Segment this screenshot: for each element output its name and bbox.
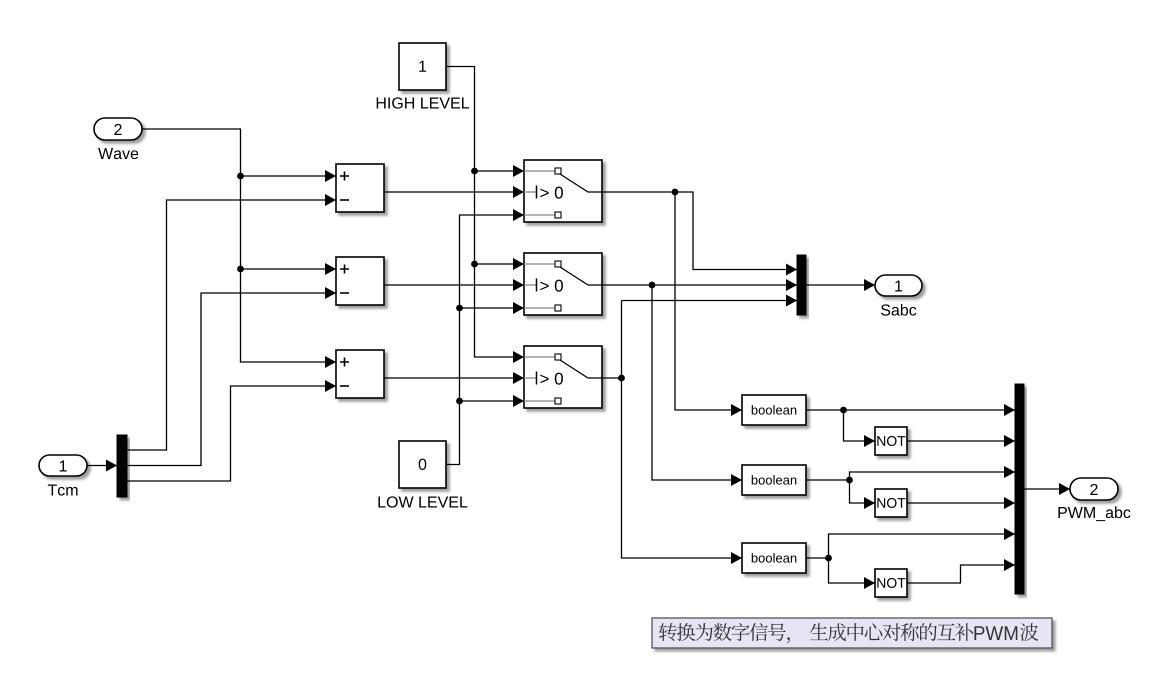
wire boolean2 out to big mux in3 bbox=[806, 466, 1015, 480]
wire switch2 out branch to boolean2 bbox=[649, 282, 742, 486]
demux (Tcm split) bbox=[117, 435, 127, 497]
wire mux to outport PWM_abc bbox=[1024, 483, 1070, 495]
annotation box (Chinese note) bbox=[652, 618, 1052, 648]
wire Tcm to demux bbox=[87, 460, 117, 472]
outport 2 PWM_abc bbox=[1070, 478, 1118, 500]
logical operator NOT2 bbox=[875, 489, 907, 517]
inport 1 Tcm bbox=[39, 455, 87, 476]
wire switch3 out branch to boolean3 bbox=[622, 301, 743, 565]
switch block switch3 (> 0) bbox=[524, 346, 602, 408]
wire LOW LEVEL to switch in3 ports bbox=[446, 209, 524, 465]
sum block sum1 (+ -) bbox=[336, 164, 384, 212]
data type conversion boolean1 bbox=[742, 395, 806, 425]
wire boolean1 out to big mux in1 bbox=[806, 404, 1015, 416]
wire switch2 out to mux Sabc in2 bbox=[602, 279, 797, 291]
wire switch1 out branch to boolean1 bbox=[672, 189, 742, 416]
mux for Sabc bbox=[797, 255, 806, 315]
label Wave bbox=[98, 148, 138, 159]
label Sabc bbox=[881, 304, 916, 316]
wire sum1 out to switch1 control bbox=[384, 186, 524, 198]
logical operator NOT1 bbox=[875, 427, 907, 455]
wire boolean3 branch to NOT3 bbox=[825, 555, 875, 589]
switch block switch2 (> 0) bbox=[524, 253, 602, 315]
wire mux to outport Sabc bbox=[806, 279, 875, 291]
wire sum2 out to switch2 control bbox=[384, 279, 524, 291]
wire boolean3 out to big mux in5 bbox=[806, 528, 1015, 558]
wire switch1 out to mux Sabc in1 bbox=[602, 192, 797, 276]
wire NOT3 out to big mux in6 bbox=[907, 559, 1015, 583]
wire boolean1 branch to NOT1 bbox=[840, 407, 875, 447]
data type conversion boolean2 bbox=[742, 465, 806, 495]
switch block switch1 (> 0) bbox=[524, 160, 602, 222]
label PWM_abc bbox=[1058, 506, 1130, 521]
outport 1 Sabc bbox=[875, 275, 922, 296]
data type conversion boolean3 bbox=[742, 543, 806, 573]
wire boolean2 branch to NOT2 bbox=[846, 477, 875, 509]
wire demux out2 to sum2 minus bbox=[127, 287, 336, 466]
wire demux out1 to sum1 minus bbox=[127, 194, 336, 450]
inport 2 Wave bbox=[94, 118, 142, 140]
wire switch3 out to mux Sabc in3 bbox=[602, 295, 797, 382]
mux for PWM_abc bbox=[1015, 384, 1024, 594]
constant 1 HIGH LEVEL bbox=[399, 43, 446, 90]
wire sum3 out to switch3 control bbox=[384, 372, 524, 384]
label Tcm bbox=[48, 484, 78, 495]
wire HIGH LEVEL to switch in1 ports bbox=[446, 67, 524, 364]
label LOW LEVEL bbox=[378, 496, 467, 507]
constant 0 LOW LEVEL bbox=[399, 441, 446, 488]
wire demux out3 to sum3 minus bbox=[127, 380, 336, 481]
sum block sum3 (+ -) bbox=[336, 350, 384, 398]
logical operator NOT3 bbox=[875, 569, 907, 597]
wire Wave to sum inputs bbox=[142, 129, 336, 368]
sum block sum2 (+ -) bbox=[336, 257, 384, 305]
wire NOT1 out to big mux in2 bbox=[907, 435, 1015, 447]
label HIGH LEVEL bbox=[377, 97, 469, 108]
wire NOT2 out to big mux in4 bbox=[907, 497, 1015, 509]
